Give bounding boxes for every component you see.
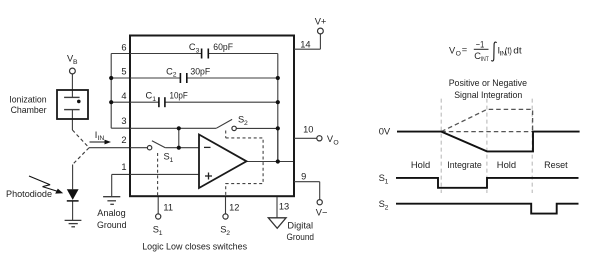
svg-text:4: 4 <box>121 91 126 101</box>
svg-text:dt: dt <box>513 45 522 55</box>
svg-text:30pF: 30pF <box>190 66 210 76</box>
svg-text:Integrate: Integrate <box>447 159 481 170</box>
svg-text:9: 9 <box>301 171 306 181</box>
svg-text:Logic Low closes switches: Logic Low closes switches <box>142 242 247 252</box>
svg-text:V−: V− <box>316 207 328 217</box>
svg-text:5: 5 <box>121 66 126 76</box>
svg-text:IN: IN <box>98 135 105 142</box>
svg-text:V+: V+ <box>315 17 327 27</box>
svg-text:Ground: Ground <box>97 220 127 230</box>
svg-text:Hold: Hold <box>411 159 430 170</box>
svg-text:B: B <box>73 59 78 66</box>
svg-text:=: = <box>462 45 467 55</box>
svg-text:11: 11 <box>163 203 173 213</box>
svg-text:10pF: 10pF <box>170 91 189 101</box>
svg-text:Ground: Ground <box>287 232 315 242</box>
svg-text:Hold: Hold <box>497 159 516 170</box>
svg-text:0V: 0V <box>379 125 391 136</box>
svg-text:Analog: Analog <box>97 208 125 218</box>
svg-text:10: 10 <box>303 125 313 135</box>
svg-text:O: O <box>456 51 461 58</box>
svg-text:6: 6 <box>121 43 126 53</box>
svg-text:Digital: Digital <box>287 220 313 230</box>
svg-text:3: 3 <box>196 47 200 54</box>
svg-text:O: O <box>333 139 338 146</box>
svg-text:2: 2 <box>121 135 126 145</box>
svg-text:12: 12 <box>229 203 239 213</box>
svg-text:60pF: 60pF <box>213 42 233 52</box>
svg-text:1: 1 <box>121 162 126 172</box>
svg-text:1: 1 <box>170 157 174 164</box>
svg-text:Reset: Reset <box>544 159 568 170</box>
svg-text:2: 2 <box>385 204 389 211</box>
svg-text:(t): (t) <box>505 45 512 55</box>
svg-text:Photodiode: Photodiode <box>6 189 52 199</box>
svg-text:1: 1 <box>385 178 389 185</box>
svg-text:2: 2 <box>244 120 248 127</box>
svg-text:Positive or Negative: Positive or Negative <box>449 77 527 88</box>
svg-text:2: 2 <box>226 230 230 237</box>
svg-text:Chamber: Chamber <box>11 105 47 115</box>
svg-text:INT: INT <box>481 56 489 63</box>
svg-text:Ionization: Ionization <box>9 94 46 104</box>
svg-text:1: 1 <box>152 96 156 103</box>
svg-text:14: 14 <box>300 40 310 50</box>
svg-text:Signal Integration: Signal Integration <box>454 89 522 100</box>
svg-text:13: 13 <box>279 201 289 211</box>
svg-text:2: 2 <box>173 72 177 79</box>
svg-text:−1: −1 <box>476 39 484 49</box>
svg-text:1: 1 <box>159 230 163 237</box>
svg-text:3: 3 <box>121 116 126 126</box>
